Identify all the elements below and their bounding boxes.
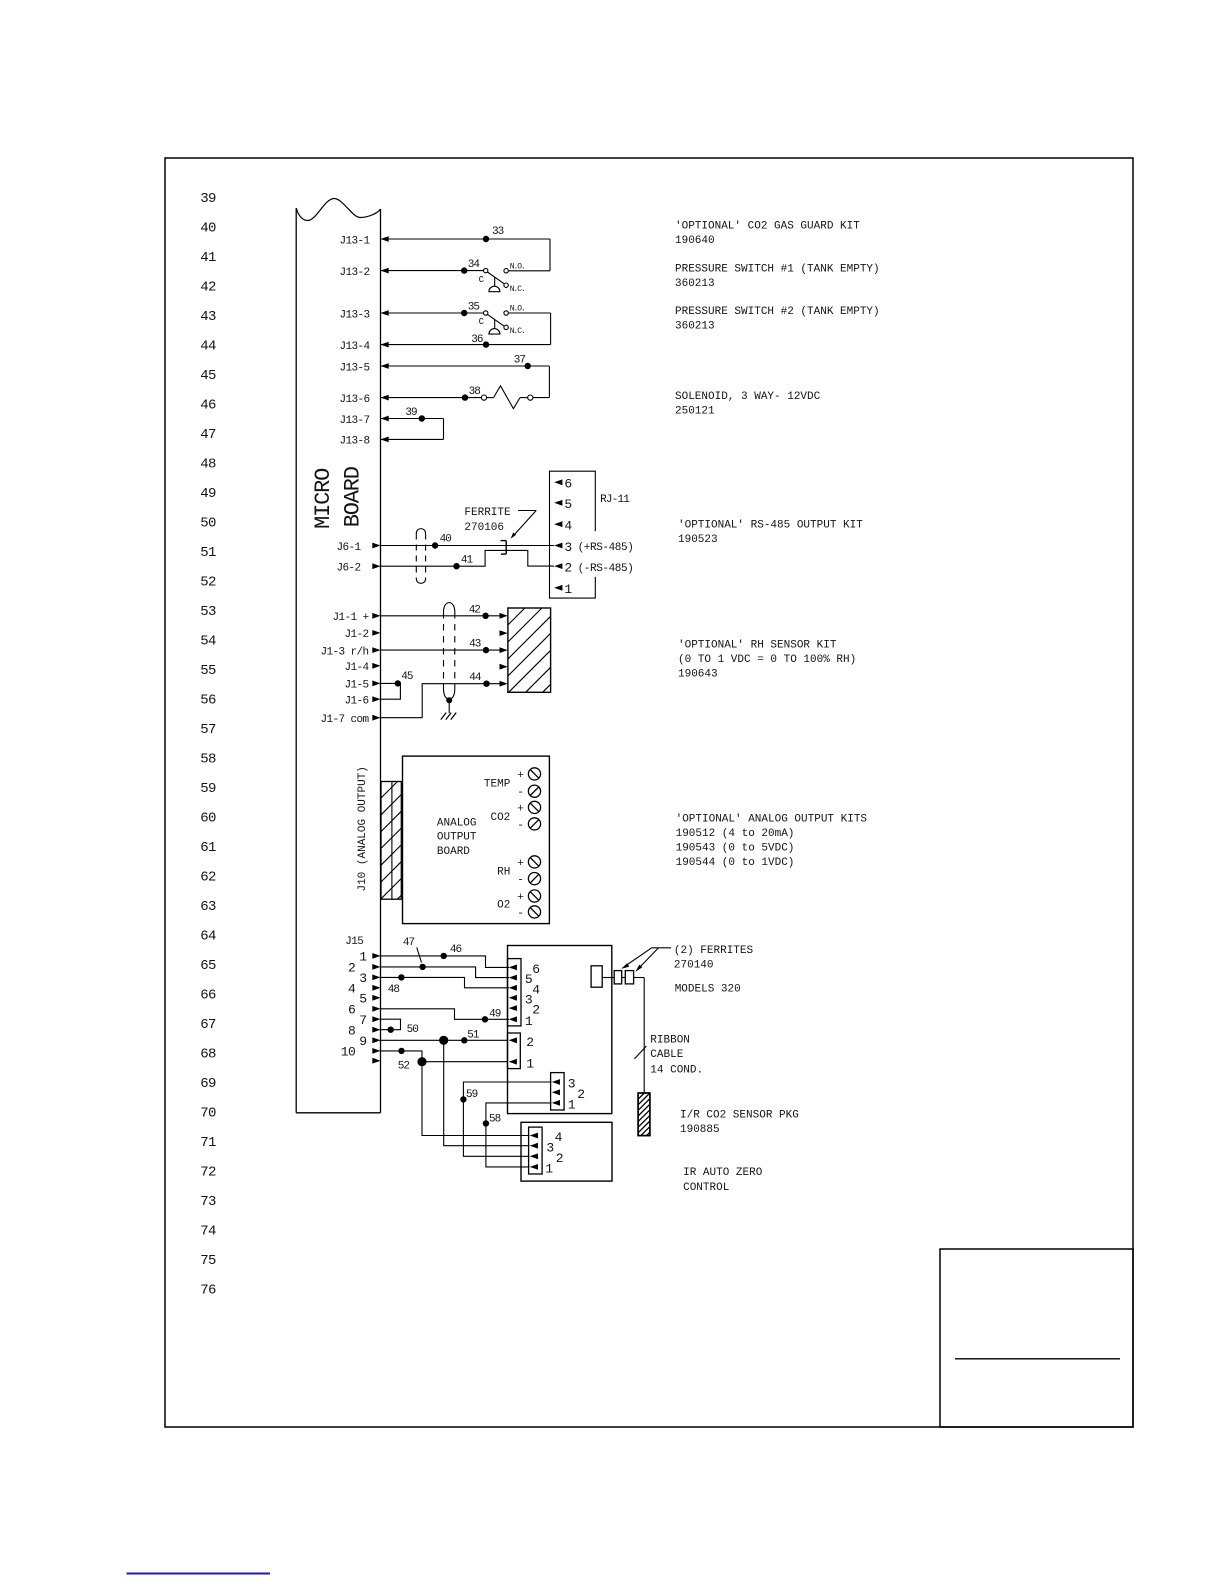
svg-text:1: 1 [359, 950, 367, 965]
svg-text:51: 51 [200, 545, 216, 561]
ferrite 2 on ribbon cable [625, 971, 633, 984]
note pressure switch 2 [675, 306, 880, 333]
pin J6-2 label and arrow [336, 563, 380, 575]
svg-text:2: 2 [526, 1035, 533, 1050]
row ladder numbers 39-76 [200, 191, 216, 1299]
RH sensor hatched block [508, 608, 551, 692]
sensor conn pin 1 [509, 1014, 533, 1029]
RJ-11 pin 3 [554, 540, 572, 555]
svg-text:8: 8 [348, 1023, 355, 1038]
twisted pair loom at J6 [416, 529, 425, 584]
pin J15-6 arrow [348, 1002, 381, 1017]
svg-text:(0 TO 1 VDC = 0 TO 100% RH): (0 TO 1 VDC = 0 TO 100% RH) [678, 654, 856, 666]
pin J13-2 label and arrow [339, 267, 388, 279]
connector J10 hatched strip [381, 782, 401, 900]
terminal screw 7 [528, 890, 540, 902]
svg-text:'OPTIONAL' CO2 GAS GUARD KIT: 'OPTIONAL' CO2 GAS GUARD KIT [675, 221, 860, 233]
wire 44 J1-7 com to RH sensor [381, 684, 502, 718]
RH sensor arrow pin4 [500, 664, 508, 670]
svg-text:62: 62 [200, 870, 216, 886]
wire 51 J15-9 to sensor conn2 pin 2 [381, 1039, 509, 1041]
svg-text:48: 48 [200, 457, 216, 473]
sensor conn pin 6 [509, 962, 540, 977]
svg-text:CO2: CO2 [490, 812, 510, 824]
svg-text:-: - [517, 908, 524, 920]
svg-text:(-RS-485): (-RS-485) [578, 563, 634, 575]
svg-text:1: 1 [545, 1162, 553, 1177]
pin J15-1 arrow [359, 950, 380, 965]
svg-text:36: 36 [471, 334, 483, 346]
svg-text:J13-4: J13-4 [339, 341, 370, 353]
svg-text:1: 1 [526, 1056, 534, 1071]
svg-text:MICRO: MICRO [311, 468, 336, 529]
wire 43 J1-3 to RH sensor [381, 649, 502, 651]
page border frame [165, 158, 1133, 1427]
note solenoid [675, 391, 821, 418]
svg-text:35: 35 [468, 301, 480, 313]
svg-text:J1-4: J1-4 [344, 662, 369, 674]
svg-text:45: 45 [401, 671, 413, 683]
terminal screw 3 [528, 801, 540, 813]
svg-text:4: 4 [348, 981, 356, 996]
svg-text:34: 34 [468, 259, 481, 271]
note CO2 gas guard kit [675, 221, 860, 248]
svg-text:+: + [517, 892, 524, 904]
wire 34 J13-2 to pressure switch 1 common [381, 270, 484, 272]
svg-text:37: 37 [514, 354, 526, 366]
svg-text:47: 47 [200, 427, 216, 443]
auto zero conn pin 1 [530, 1162, 553, 1177]
pin J1-6 label and arrow [344, 695, 380, 707]
svg-text:41: 41 [200, 250, 216, 266]
svg-text:45: 45 [200, 368, 216, 384]
terminal screw 5 [528, 856, 540, 868]
svg-text:52: 52 [398, 1060, 410, 1072]
node 47 [419, 964, 425, 970]
svg-text:360213: 360213 [675, 321, 715, 333]
svg-text:64: 64 [200, 929, 216, 945]
svg-text:C: C [479, 317, 485, 327]
svg-text:73: 73 [200, 1194, 216, 1210]
terminal screw 6 [528, 873, 540, 885]
sensor ribbon connector 6-pin box [508, 959, 522, 1026]
wire 49 J15-6 to sensor conn pin 1 [381, 1009, 510, 1020]
svg-text:J1-3 r/h: J1-3 r/h [320, 646, 368, 658]
svg-text:I/R CO2 SENSOR PKG: I/R CO2 SENSOR PKG [680, 1110, 799, 1122]
svg-text:55: 55 [200, 663, 216, 679]
svg-text:(2) FERRITES: (2) FERRITES [674, 945, 754, 957]
svg-text:56: 56 [200, 693, 216, 709]
svg-text:1: 1 [564, 582, 572, 597]
svg-text:RH: RH [497, 866, 510, 878]
terminal screw 8 [528, 906, 540, 918]
svg-text:63: 63 [200, 899, 216, 915]
sensor conn3 pin 1 [552, 1098, 576, 1113]
svg-text:39: 39 [405, 407, 417, 419]
wire 59 sensor conn3 pin3 to auto zero conn pin 2 [463, 1082, 551, 1156]
svg-text:10: 10 [341, 1045, 356, 1060]
svg-text:51: 51 [467, 1030, 480, 1042]
pin J1-2 label and arrow [344, 629, 380, 641]
svg-text:5: 5 [564, 497, 571, 512]
connector RJ-11 outline [550, 471, 596, 598]
svg-text:+: + [517, 803, 524, 815]
svg-text:+: + [517, 770, 524, 782]
svg-text:70: 70 [200, 1106, 216, 1122]
svg-text:38: 38 [469, 386, 481, 398]
node 44 [483, 681, 489, 687]
wire 48 J15-3 to sensor conn pin 4 [381, 977, 510, 987]
leader 47 [417, 948, 422, 963]
RJ-11 pin 1 [554, 582, 572, 597]
svg-text:O2: O2 [497, 900, 510, 912]
svg-text:190523: 190523 [678, 534, 718, 546]
svg-text:N.O.: N.O. [510, 262, 525, 271]
sensor conn3 pin 3 [552, 1077, 575, 1092]
wire 35 J13-3 to pressure switch 2 common [381, 312, 484, 314]
svg-text:J1-7 com: J1-7 com [320, 714, 369, 726]
node 50 [388, 1027, 394, 1033]
svg-text:68: 68 [200, 1047, 216, 1063]
svg-text:190543 (0 to 5VDC): 190543 (0 to 5VDC) [676, 843, 795, 855]
label (2) FERRITES 270140 [674, 945, 754, 972]
note RH sensor kit [678, 640, 856, 681]
micro board outline [296, 199, 380, 1113]
analog output board box [403, 756, 550, 924]
node 35 [461, 310, 467, 316]
svg-text:59: 59 [200, 781, 216, 797]
svg-text:N.C.: N.C. [510, 285, 525, 294]
shield drain node [446, 697, 452, 703]
pin J15-3 arrow [359, 971, 380, 986]
RJ-11 pin 5 [554, 497, 572, 512]
footer link underline [127, 1573, 271, 1575]
pressure switch PS1 (tank empty) [479, 262, 550, 294]
node 34 [461, 267, 467, 273]
svg-text:J6-2: J6-2 [336, 563, 360, 575]
wire 52 J15-10 branch [381, 1051, 509, 1062]
auto zero conn pin 4 [530, 1130, 563, 1145]
svg-text:-: - [517, 875, 524, 887]
RH sensor arrow pin5 [500, 681, 508, 687]
svg-text:33: 33 [492, 226, 504, 238]
svg-text:61: 61 [200, 840, 216, 856]
svg-text:5: 5 [525, 972, 532, 987]
leader to ribbon cable [634, 1046, 646, 1059]
svg-text:J13-3: J13-3 [339, 309, 369, 321]
svg-text:39: 39 [200, 191, 216, 207]
svg-text:'OPTIONAL' ANALOG OUTPUT KITS: 'OPTIONAL' ANALOG OUTPUT KITS [676, 814, 868, 826]
node 42 [482, 613, 488, 619]
svg-text:3: 3 [546, 1140, 553, 1155]
svg-text:66: 66 [200, 988, 216, 1004]
svg-text:46: 46 [200, 398, 216, 414]
wire 58 sensor conn3 pin1 to auto zero conn pin 1 [486, 1103, 552, 1167]
svg-text:J13-6: J13-6 [339, 394, 369, 406]
pin J1-5 label and arrow [344, 680, 380, 692]
ribbon cable wire from sensor box [602, 978, 644, 1094]
node 39 [419, 415, 425, 421]
svg-text:65: 65 [200, 958, 216, 974]
node 58 [483, 1120, 489, 1126]
svg-text:50: 50 [407, 1024, 419, 1036]
sensor conn3 pin 2 [552, 1087, 585, 1102]
wire net51 down to auto zero conn pin 3 [444, 1040, 530, 1145]
svg-text:CABLE: CABLE [650, 1049, 683, 1061]
sensor conn pin 5 [509, 972, 533, 987]
svg-text:2: 2 [577, 1087, 584, 1102]
svg-text:3: 3 [359, 971, 366, 986]
svg-text:J13-8: J13-8 [339, 436, 369, 448]
auto zero conn pin 2 [530, 1151, 563, 1166]
pin J1-7 label and arrow [320, 714, 380, 726]
svg-text:60: 60 [200, 811, 216, 827]
ferrite 1 on ribbon cable [614, 971, 622, 984]
svg-text:BOARD: BOARD [341, 466, 366, 527]
svg-text:-: - [517, 820, 524, 832]
svg-text:J6-1: J6-1 [336, 542, 361, 554]
sensor conn2 pin 2 [509, 1035, 534, 1050]
svg-text:3: 3 [525, 992, 532, 1007]
svg-text:SOLENOID, 3 WAY- 12VDC: SOLENOID, 3 WAY- 12VDC [675, 391, 821, 403]
svg-text:PRESSURE SWITCH #2 (TANK EMPTY: PRESSURE SWITCH #2 (TANK EMPTY) [675, 306, 880, 318]
title block [940, 1249, 1133, 1427]
wire 40 J6-1 to RJ-11 pin 3 [381, 545, 555, 547]
svg-text:ANALOG: ANALOG [437, 817, 477, 829]
wire 37 J13-5 to solenoid [381, 366, 550, 398]
svg-text:N.C.: N.C. [510, 327, 525, 336]
svg-text:48: 48 [388, 984, 400, 996]
label ANALOG OUTPUT BOARD [437, 817, 477, 858]
svg-text:250121: 250121 [675, 406, 715, 418]
node 41 [453, 563, 459, 569]
wire 50 J15-7 to J15-8 jumper [381, 1019, 401, 1029]
svg-text:5: 5 [359, 991, 366, 1006]
svg-text:J1-1 +: J1-1 + [332, 612, 368, 624]
svg-text:49: 49 [489, 1008, 501, 1020]
svg-text:J1-2: J1-2 [344, 629, 368, 641]
svg-text:52: 52 [200, 575, 216, 591]
node 33 [483, 236, 489, 242]
node 45 [395, 680, 401, 686]
RJ-11 pin 2 [554, 561, 572, 576]
node 43 [483, 647, 489, 653]
node 48 [398, 974, 404, 980]
svg-text:190544 (0 to 1VDC): 190544 (0 to 1VDC) [676, 857, 795, 869]
note pressure switch 1 [675, 264, 880, 291]
node 59 [460, 1096, 466, 1102]
label RIBBON CABLE 14 COND. [650, 1035, 703, 1077]
svg-text:9: 9 [359, 1034, 366, 1049]
label IR AUTO ZERO CONTROL [683, 1167, 763, 1194]
pressure switch PS2 (tank empty) [479, 305, 551, 345]
auto zero conn pin 3 [530, 1140, 554, 1155]
pin J13-4 label and arrow [339, 341, 388, 353]
svg-text:190640: 190640 [675, 235, 715, 247]
svg-text:RIBBON: RIBBON [650, 1035, 690, 1047]
svg-text:PRESSURE SWITCH #1 (TANK EMPTY: PRESSURE SWITCH #1 (TANK EMPTY) [675, 264, 880, 276]
svg-text:270140: 270140 [674, 960, 714, 972]
svg-text:(+RS-485): (+RS-485) [578, 542, 634, 554]
terminal screw 4 [528, 818, 540, 830]
svg-text:40: 40 [200, 221, 216, 237]
svg-text:58: 58 [200, 752, 216, 768]
svg-text:2: 2 [532, 1003, 539, 1018]
svg-text:46: 46 [450, 944, 462, 956]
svg-text:+: + [517, 858, 524, 870]
svg-text:3: 3 [568, 1077, 575, 1092]
note analog output kits [676, 814, 868, 870]
terminal screw 1 [528, 768, 540, 780]
svg-text:4: 4 [564, 519, 572, 534]
wire 45 J1-5 to J1-6 jumper [381, 683, 401, 699]
RJ-11 pin 4 [554, 519, 572, 534]
svg-text:J15: J15 [345, 936, 363, 948]
svg-text:67: 67 [200, 1017, 216, 1033]
svg-text:47: 47 [403, 937, 415, 949]
svg-text:4: 4 [555, 1130, 563, 1145]
node 46 [441, 953, 447, 959]
wire net52 down to auto zero conn pin 4 [422, 1062, 530, 1136]
svg-text:J13-2: J13-2 [339, 267, 369, 279]
terminal polarity signs [517, 770, 524, 920]
pin J13-7 label and arrow [339, 415, 388, 427]
title block divider line [955, 1358, 1120, 1360]
chassis ground [441, 713, 456, 720]
RH sensor arrow pin1 [500, 613, 508, 619]
wire 47 J15-2 to sensor conn pin 5 [381, 967, 510, 978]
sensor conn pin 3 [509, 992, 533, 1007]
pin J6-1 label and arrow [336, 542, 380, 554]
solenoid 3-way valve symbol [481, 386, 549, 409]
svg-text:75: 75 [200, 1253, 216, 1269]
svg-text:J13-5: J13-5 [339, 362, 369, 374]
svg-text:-: - [517, 787, 524, 799]
pin J15-10 arrow [341, 1045, 381, 1060]
svg-text:'OPTIONAL' RH SENSOR KIT: 'OPTIONAL' RH SENSOR KIT [678, 640, 837, 652]
svg-text:RJ-11: RJ-11 [600, 494, 630, 506]
svg-text:2: 2 [348, 961, 355, 976]
wire 33 J13-1 to pressure switch 1 N.O. [381, 239, 551, 271]
label I/R CO2 SENSOR PKG 190885 [680, 1110, 799, 1137]
pin J15-2 arrow [348, 961, 381, 976]
pin J15 spare arrow [372, 1058, 380, 1064]
ferrite block inside sensor box [591, 966, 602, 987]
sensor conn pin 4 [509, 982, 541, 997]
svg-text:TEMP: TEMP [484, 779, 511, 791]
svg-text:J13-7: J13-7 [339, 415, 369, 427]
svg-text:N.O.: N.O. [510, 305, 525, 314]
RJ-11 pin 6 [554, 477, 572, 492]
wire 39 J13-7 to J13-8 jumper [381, 419, 444, 440]
svg-text:4: 4 [532, 982, 540, 997]
svg-text:50: 50 [200, 516, 216, 532]
leader arrow to ferrite [511, 511, 537, 539]
shield loom at J1 [444, 603, 455, 700]
sensor conn pin 2 [509, 1003, 540, 1018]
wire 46 J15-1 to sensor conn pin 6 [381, 956, 510, 968]
svg-text:76: 76 [200, 1283, 216, 1299]
I/R CO2 sensor package box (MODELS 320) [508, 946, 612, 1114]
svg-text:BOARD: BOARD [437, 846, 470, 858]
pin J13-5 label and arrow [339, 362, 388, 374]
sensor conn2 pin 1 [509, 1056, 535, 1071]
auto zero conn 4-pin box [529, 1127, 543, 1174]
svg-text:6: 6 [348, 1002, 355, 1017]
label FERRITE 270106 [464, 507, 511, 534]
wire 41 J6-2 to RJ-11 pin 2 [381, 550, 555, 566]
svg-text:MODELS 320: MODELS 320 [675, 984, 741, 996]
svg-text:43: 43 [200, 309, 216, 325]
ferrite bead 270106 on J6 pair [501, 541, 507, 555]
wire 36 J13-4 from pressure switch 2 N.O. [381, 344, 551, 346]
svg-text:J13-1: J13-1 [339, 235, 370, 247]
terminal screw 2 [528, 785, 540, 797]
svg-text:2: 2 [564, 561, 571, 576]
svg-text:C: C [479, 275, 485, 285]
svg-text:58: 58 [489, 1113, 501, 1125]
svg-text:'OPTIONAL' RS-485 OUTPUT KIT: 'OPTIONAL' RS-485 OUTPUT KIT [678, 520, 863, 532]
I/R CO2 sensor pkg hatched block [638, 1093, 650, 1136]
svg-text:14 COND.: 14 COND. [650, 1064, 703, 1076]
svg-text:190512 (4 to 20mA): 190512 (4 to 20mA) [676, 828, 795, 840]
svg-text:360213: 360213 [675, 278, 715, 290]
pin J13-6 label and arrow [339, 394, 388, 406]
svg-text:44: 44 [469, 672, 482, 684]
junction wire52 branch [417, 1057, 426, 1066]
svg-text:IR AUTO ZERO: IR AUTO ZERO [683, 1167, 763, 1179]
shield drain wire [448, 700, 450, 713]
node 40 [432, 542, 438, 548]
svg-text:2: 2 [556, 1151, 563, 1166]
junction J15-9 branch [439, 1036, 448, 1045]
svg-text:53: 53 [200, 604, 216, 620]
node 37 [525, 363, 531, 369]
pin J13-1 label and arrow [339, 235, 388, 247]
svg-text:44: 44 [200, 339, 216, 355]
svg-text:41: 41 [461, 554, 474, 566]
svg-text:43: 43 [469, 638, 481, 650]
svg-text:42: 42 [469, 604, 481, 616]
node 51 [461, 1037, 467, 1043]
svg-text:74: 74 [200, 1224, 216, 1240]
svg-text:190885: 190885 [680, 1124, 720, 1136]
pin J15-4 arrow [348, 981, 381, 996]
pin J15-8 arrow [348, 1023, 381, 1038]
svg-text:54: 54 [200, 634, 216, 650]
pin J15-9 arrow [359, 1034, 380, 1049]
note RS-485 output kit [678, 520, 863, 547]
svg-text:49: 49 [200, 486, 216, 502]
svg-text:3: 3 [564, 540, 571, 555]
sensor conn2 2-pin box [508, 1033, 521, 1069]
svg-text:J10 (ANALOG OUTPUT): J10 (ANALOG OUTPUT) [357, 766, 369, 891]
svg-text:CONTROL: CONTROL [683, 1182, 729, 1194]
wire 38 J13-6 to solenoid [381, 397, 482, 399]
node 52 [398, 1048, 404, 1054]
pin J15-7 arrow [359, 1013, 380, 1028]
node 49 [482, 1016, 488, 1022]
svg-text:57: 57 [200, 722, 216, 738]
svg-text:69: 69 [200, 1076, 216, 1092]
svg-text:7: 7 [359, 1013, 366, 1028]
svg-text:6: 6 [564, 477, 571, 492]
svg-text:190643: 190643 [678, 669, 718, 681]
pin J13-8 label and arrow [339, 436, 388, 448]
svg-text:FERRITE: FERRITE [464, 507, 511, 519]
RH sensor arrow pin2 [500, 630, 508, 636]
node 36 [483, 341, 489, 347]
